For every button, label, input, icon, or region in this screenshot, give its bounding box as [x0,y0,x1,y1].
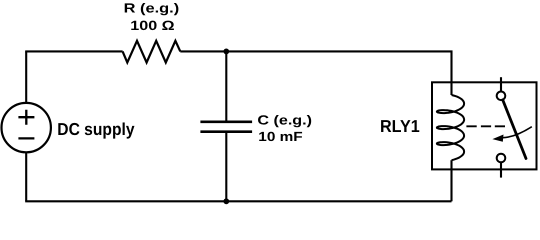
switch top contact stub [500,77,502,91]
wire bottom rail [25,200,451,202]
plus sign [18,110,34,125]
node junction dot bottom [223,198,229,204]
wire top rail left of resistor [25,50,122,52]
switch bottom contact stub [500,162,502,177]
wire top rail resistor to corner and down to relay [180,51,451,95]
wire bottom-left vertical [25,153,27,202]
minus sign [18,137,34,139]
relay RLY1 box [432,82,537,169]
actuation arrow head [492,135,503,142]
wire top-left vertical [25,51,27,102]
svg-text:C (e.g.): C (e.g.) [257,112,312,127]
capacitor C plates [200,122,252,132]
svg-text:10 mF: 10 mF [258,129,302,144]
switch blade [503,100,526,159]
node junction dot top [223,49,229,55]
wire capacitor top branch [225,51,227,120]
wire capacitor bottom branch [225,133,227,201]
svg-text:DC supply: DC supply [57,119,135,139]
wire relay coil bottom feed [450,160,452,201]
actuation arrow arc [503,127,532,138]
svg-text:RLY1: RLY1 [380,116,420,136]
DC supply source circle [2,103,51,152]
dashed actuation link [466,125,505,127]
svg-text:100 Ω: 100 Ω [130,18,175,33]
svg-text:R (e.g.): R (e.g.) [124,1,180,16]
switch bottom contact circle [497,154,506,163]
switch top contact circle [497,92,506,101]
relay coil L loops [437,95,464,160]
resistor R zigzag [123,41,181,63]
